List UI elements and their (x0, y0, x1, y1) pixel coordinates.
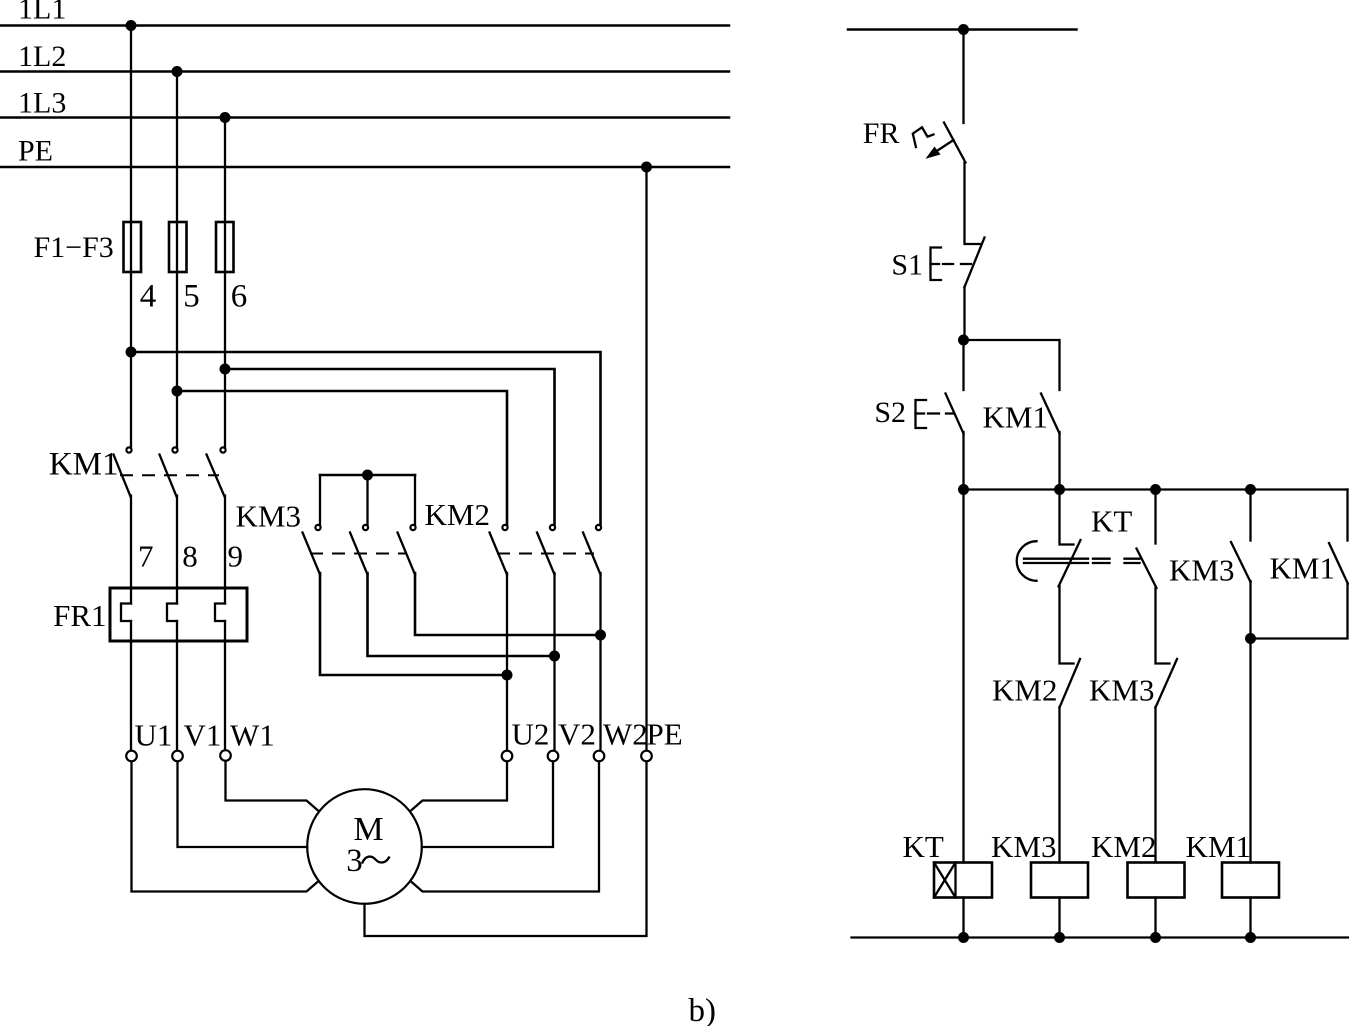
interlock contact KM2 (NC) blade (1060, 659, 1081, 708)
svg-text:9: 9 (227, 539, 243, 574)
wire KM1 pole 1 to FR1 (130, 496, 132, 604)
terminal W2 (594, 751, 605, 762)
wire U1 to motor (132, 762, 319, 892)
KM2 pole 2 terminal (550, 525, 555, 530)
wire S1 to node A (963, 287, 965, 340)
terminal W1 (220, 750, 231, 761)
wire FR1 pole 3 to W1 (224, 621, 226, 750)
FR1 heater element pole 1 (121, 604, 131, 622)
svg-text:KM2: KM2 (1091, 829, 1156, 864)
KM1 pole 1 blade (114, 455, 131, 497)
wire FR1 pole 1 to U1 (130, 621, 132, 751)
node A junction (958, 335, 969, 346)
junction on 1L2 phase B (172, 66, 183, 77)
KM3 bar drop pole 1 (319, 475, 321, 525)
svg-text:S1: S1 (891, 249, 923, 282)
svg-text:U2: U2 (512, 717, 550, 752)
wire KM3 NC to KM2 coil (1154, 707, 1156, 863)
svg-text:1L1: 1L1 (18, 0, 66, 26)
svg-text:5: 5 (183, 279, 200, 315)
contactor coil KM2 (1128, 863, 1185, 898)
wire W2 to motor (411, 762, 599, 892)
wire V2 to motor (422, 762, 553, 848)
KM1 pole 2 blade (160, 455, 177, 497)
wire KM3 NO to KM1 coil (1249, 581, 1251, 863)
wire node A to KM1 aux branch (964, 340, 1060, 390)
node V2 junction (549, 651, 560, 662)
wire phase C to KM2 pole 2 (225, 369, 555, 525)
junction on 1L1 phase A (126, 20, 137, 31)
wire phase C 1L3 to KM1 pole 3 (224, 118, 226, 448)
terminal V2 (548, 751, 559, 762)
svg-text:V1: V1 (184, 718, 222, 753)
wire KM1 NO to node C (1251, 583, 1348, 639)
node B4 junction (1245, 484, 1256, 495)
svg-text:S2: S2 (874, 396, 906, 429)
svg-text:KM1: KM1 (983, 400, 1048, 435)
aux contact KM1 (NO) blade (1329, 543, 1348, 584)
node U2 junction (502, 670, 513, 681)
svg-text:1L2: 1L2 (18, 40, 66, 73)
fuse F3 (216, 222, 234, 272)
KM2 pole 1 blade (490, 533, 508, 575)
wire KM2 pole 2 to V2 (553, 573, 555, 751)
wire KM1 pole 2 to FR1 (176, 496, 178, 604)
S2 pushbutton actuator (916, 400, 954, 428)
node C junction (1245, 633, 1256, 644)
svg-text:KM3: KM3 (991, 829, 1056, 864)
KT delay double line lower (1024, 562, 1140, 564)
fuse F2 (169, 222, 187, 272)
KT contact blade (1059, 540, 1081, 587)
node phase C feed junction (220, 364, 231, 375)
svg-text:KM2: KM2 (992, 673, 1057, 708)
bus 1L3 (0, 116, 729, 119)
contactor coil KM3 (1031, 863, 1088, 898)
wire KM1 coil to rail (1249, 898, 1251, 938)
wire KM2 pole 3 to W2 (599, 573, 601, 751)
svg-text:7: 7 (138, 539, 154, 574)
wire FR1 pole 2 to V1 (176, 621, 178, 751)
bus 1L2 (0, 70, 729, 73)
svg-text:KT: KT (1091, 504, 1132, 539)
KM3 bar drop pole 3 (414, 475, 416, 525)
svg-text:KM2: KM2 (425, 497, 490, 532)
svg-text:4: 4 (140, 279, 157, 315)
rail junction KT (958, 932, 969, 943)
KM3 pole 1 terminal (315, 525, 320, 530)
svg-text:6: 6 (231, 279, 248, 315)
thermal relay contact FR (NC) blade (944, 123, 966, 163)
node phase B feed junction (172, 386, 183, 397)
svg-text:b): b) (689, 993, 717, 1026)
KM2 linkage dashed (497, 553, 594, 555)
timer relay coil KT (934, 863, 992, 898)
KM2 pole 3 terminal (596, 525, 601, 530)
wire KM3 pole 1 to node U2 (320, 573, 505, 675)
rail junction KM2 (1150, 932, 1161, 943)
KM3 linkage dashed (310, 553, 407, 555)
svg-text:KM3: KM3 (236, 499, 301, 534)
wire node B4 to KM3 NO contact (1249, 490, 1251, 541)
control return rail (852, 936, 1349, 938)
wire KM2 NC to KM3 coil (1058, 707, 1060, 863)
wire KM1 aux to node B (1058, 432, 1060, 490)
rail junction KM1 (1245, 932, 1256, 943)
svg-text:PE: PE (647, 717, 683, 752)
motor M 3-phase (307, 789, 422, 904)
wire U2 to motor (411, 762, 507, 811)
timer contact KT (delayed NC) stem (1060, 490, 1074, 545)
svg-text:V2: V2 (558, 717, 596, 752)
node W2 junction (595, 630, 606, 641)
svg-text:W2: W2 (603, 717, 648, 752)
svg-text:W1: W1 (230, 718, 275, 753)
KM1 pole 3 blade (207, 455, 225, 497)
wire FR to S1 (965, 163, 981, 245)
svg-text:PE: PE (18, 135, 53, 168)
wire KM3 pole 3 to node W2 (415, 573, 599, 635)
thermal relay FR1 box (110, 588, 247, 641)
wire KM1 pole 3 to FR1 (224, 496, 226, 604)
terminal PE (641, 751, 652, 762)
wire KM2 pole 1 to U2 (506, 573, 508, 751)
KT delay arc (1017, 541, 1037, 581)
contactor KM1 main contacts (114, 447, 226, 496)
wire KM3 pole 2 to node V2 (368, 573, 554, 656)
terminal V1 (172, 751, 183, 762)
contactor KM1 aux seal-in contact (NO) blade (1041, 394, 1060, 434)
aux contact KM3 (NO) blade (1231, 542, 1251, 582)
terminal U1 (126, 751, 137, 762)
wire V1 to motor (178, 762, 308, 848)
KM3 pole 1 blade (303, 533, 321, 575)
interlock contact KM3 (NC) blade (1156, 659, 1178, 708)
FR actuating arrow (926, 140, 954, 159)
KM3 pole 3 blade (398, 533, 416, 575)
wire KT contact to KM2 NC (1060, 586, 1074, 664)
KM3 bar drop pole 2 (366, 475, 368, 525)
wire PE bus to PE terminal (645, 167, 647, 751)
wire KM3 coil to rail (1058, 898, 1060, 938)
svg-text:1L3: 1L3 (18, 87, 66, 120)
svg-text:U1: U1 (135, 718, 173, 753)
bus PE (0, 166, 729, 169)
svg-text:8: 8 (182, 539, 198, 574)
bus 1L1 (0, 24, 729, 27)
junction on 1L3 phase C (220, 112, 231, 123)
svg-text:F1−F3: F1−F3 (34, 231, 114, 264)
KM2 pole 1 terminal (502, 525, 507, 530)
wire phase A to KM2 pole 3 (131, 352, 601, 525)
KM3 pole 3 terminal (410, 525, 415, 530)
fuse F1 (124, 222, 142, 272)
wire node B to KT coil (962, 490, 964, 863)
svg-text:KT: KT (903, 829, 944, 864)
contactor KM2 contacts (490, 525, 602, 575)
svg-text:KM3: KM3 (1169, 553, 1234, 588)
KM3 bar junction (362, 470, 373, 481)
KT delay double line upper (1024, 558, 1140, 560)
junction control bus (958, 24, 969, 35)
wire node A to S2 (962, 340, 964, 390)
junction on PE (641, 162, 652, 173)
wire S2 to node B (962, 432, 964, 490)
svg-text:3: 3 (346, 843, 363, 879)
FR1 heater element pole 2 (167, 604, 177, 622)
KM2 pole 2 blade (537, 533, 555, 575)
start button S2 (NO) blade (946, 394, 964, 434)
wire KM2 coil to rail (1154, 898, 1156, 938)
control node bus (964, 488, 1348, 490)
S1 pushbutton actuator (931, 248, 975, 281)
svg-text:FR1: FR1 (53, 598, 106, 633)
terminal U2 (502, 751, 513, 762)
contactor KM3 star bridge bar (320, 474, 415, 477)
wire bus to FR contact (962, 30, 964, 124)
wire KT coil to rail (962, 898, 964, 938)
timer contact KT (delayed NO) blade (1137, 549, 1157, 589)
svg-text:FR: FR (863, 117, 900, 150)
KM1 pole 1 terminal (126, 447, 131, 452)
wire node B3 to KT NO contact (1154, 490, 1156, 544)
svg-text:KM1: KM1 (1270, 551, 1335, 586)
wire phase A 1L1 to KM1 pole 1 (130, 26, 132, 448)
node B2 junction (1054, 484, 1065, 495)
KM3 pole 2 blade (350, 533, 368, 575)
svg-text:KM1: KM1 (49, 447, 119, 483)
node B3 junction (1150, 484, 1161, 495)
KM1 pole 3 terminal (220, 447, 225, 452)
KM2 pole 3 blade (583, 533, 601, 575)
wire bus corner to KM1 NO contact (1346, 490, 1348, 541)
label tilde (ac) (363, 857, 390, 863)
KM1 linkage dashed (120, 474, 219, 476)
wire phase B 1L2 to KM1 pole 2 (176, 72, 178, 448)
node B junction (958, 484, 969, 495)
wire phase B to KM2 pole 1 (177, 391, 507, 525)
KM3 pole 2 terminal (363, 525, 368, 530)
svg-text:KM1: KM1 (1186, 829, 1251, 864)
wire KT NO to KM3 NC (1156, 588, 1170, 664)
KM1 pole 2 terminal (172, 447, 177, 452)
node phase A feed junction (126, 347, 137, 358)
FR trip element hook (913, 127, 934, 147)
contactor coil KM1 (1222, 863, 1279, 898)
control supply bus top (848, 28, 1077, 31)
rail junction KM3 (1054, 932, 1065, 943)
contactor KM3 contacts (303, 525, 416, 575)
svg-text:KM3: KM3 (1089, 673, 1154, 708)
wire W1 to motor (226, 761, 319, 811)
stop button S1 (NC) blade (965, 238, 985, 288)
FR1 heater element pole 3 (215, 604, 225, 622)
wire PE to motor frame (365, 762, 647, 937)
